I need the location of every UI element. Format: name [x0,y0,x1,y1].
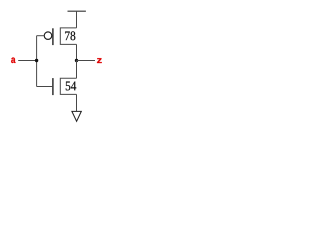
wire input to NMOS gate [37,86,53,88]
wire input vertical (gate net) [36,36,38,87]
wire NMOS source down to ground [76,94,78,111]
wire PMOS drain down to output node [76,44,78,60]
node a label [11,58,15,64]
junction output node [75,59,78,62]
value label 54 [66,82,76,91]
power supply symbol (VDD bar) [68,10,86,12]
transistor M2 NMOS channel box (open right) [60,78,76,94]
transistor M1 PMOS channel box (open right) [60,28,76,45]
wire input horizontal from port a [18,60,36,62]
PMOS gate bar [52,28,54,45]
junction input node [35,59,38,62]
value label 78 [65,31,75,40]
node z label [97,58,102,63]
wire output node down to NMOS drain [76,61,78,79]
wire output horizontal to port z [77,60,96,62]
PMOS gate bubble [44,32,52,40]
background [0,0,114,131]
wire input to PMOS gate bubble [37,35,45,37]
wire VDD stem down to PMOS source [76,11,78,28]
ground symbol [72,111,81,121]
NMOS gate bar [52,78,54,95]
